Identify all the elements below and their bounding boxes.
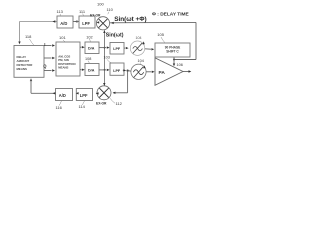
svg-text:A/D: A/D [60, 21, 67, 26]
svg-text:EX-OR: EX-OR [90, 13, 101, 17]
svg-text:105: 105 [157, 32, 164, 37]
svg-text:Φ : DELAY TIME: Φ : DELAY TIME [152, 11, 190, 17]
svg-text:113: 113 [57, 9, 64, 14]
svg-text:A/D: A/D [59, 93, 66, 98]
svg-text:D/A: D/A [88, 47, 95, 51]
svg-text:D/A: D/A [88, 69, 95, 73]
svg-text:PA: PA [159, 70, 166, 76]
svg-text:104: 104 [136, 36, 142, 40]
svg-text:100: 100 [97, 1, 104, 6]
svg-text:112: 112 [116, 101, 123, 106]
svg-text:LPF: LPF [80, 93, 88, 98]
svg-text:LPF: LPF [113, 47, 121, 51]
svg-text:I: I [44, 42, 45, 47]
svg-text:110: 110 [107, 7, 114, 12]
svg-text:102: 102 [86, 35, 92, 39]
svg-text:111: 111 [79, 9, 86, 14]
svg-text:108: 108 [85, 57, 91, 61]
svg-text:EX-OR: EX-OR [96, 102, 107, 106]
svg-text:101: 101 [59, 35, 66, 40]
svg-text:106: 106 [177, 63, 183, 67]
svg-text:LPF: LPF [113, 69, 121, 73]
svg-text:118: 118 [25, 34, 32, 39]
svg-text:SHIFT C: SHIFT C [166, 50, 179, 54]
svg-text:103: 103 [104, 56, 110, 60]
svg-text:LPF: LPF [82, 21, 90, 26]
svg-text:Sin(ωt): Sin(ωt) [106, 33, 124, 39]
svg-text:MEANS: MEANS [58, 65, 68, 69]
svg-text:104: 104 [138, 59, 144, 63]
svg-text:MEANS: MEANS [17, 67, 28, 71]
svg-text:Sin(ωt +Φ): Sin(ωt +Φ) [114, 16, 146, 23]
